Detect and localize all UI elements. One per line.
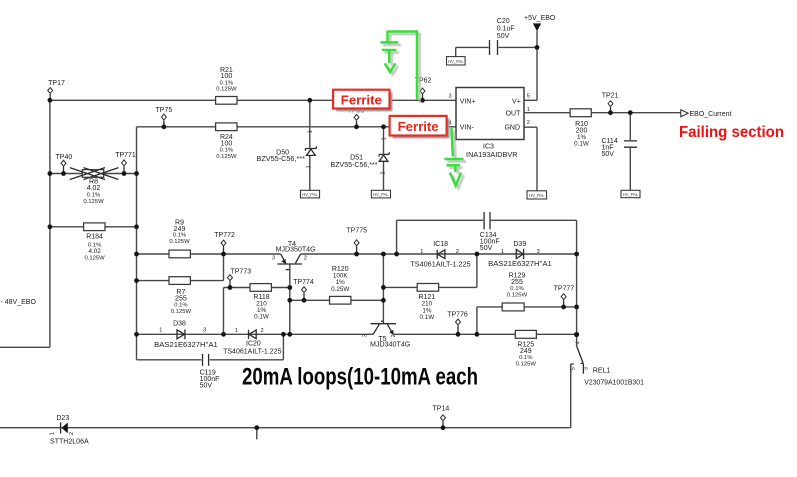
svg-text:0.1%: 0.1%	[174, 302, 188, 308]
svg-text:1: 1	[159, 328, 162, 334]
junction dots VIN- net	[162, 124, 386, 129]
svg-text:TP75: TP75	[156, 107, 173, 114]
wire: relay to bottom rail x=570.7	[570, 374, 572, 428]
net flag EBO_Current	[681, 110, 732, 118]
transistor T4 (PNP)	[272, 241, 316, 270]
testpoint TP772	[214, 232, 235, 254]
capacitor C134	[480, 212, 500, 252]
junction dots bottom rail	[254, 425, 445, 430]
svg-text:255: 255	[175, 295, 187, 302]
testpoint TP75	[156, 107, 173, 127]
svg-text:4.02: 4.02	[87, 185, 101, 192]
wire: bottom row y=334.3 left of T5	[137, 333, 374, 335]
svg-text:HV_PAL: HV_PAL	[623, 192, 639, 197]
svg-text:2: 2	[261, 328, 264, 334]
resistor R9	[169, 219, 190, 257]
wire: IC3 OUT net y=112.7	[524, 112, 681, 114]
wire: left vertical bus x=49.9	[49, 100, 51, 347]
svg-text:GND: GND	[504, 124, 520, 131]
svg-text:1: 1	[420, 249, 423, 255]
svg-text:TS4061AILT-1.225: TS4061AILT-1.225	[410, 261, 470, 268]
svg-text:4: 4	[576, 341, 582, 344]
svg-text:R184: R184	[86, 233, 103, 240]
wire: middle row y=254 right of T4	[301, 253, 577, 255]
svg-text:0.1%: 0.1%	[87, 192, 101, 198]
wire: R118 row y=287.5	[224, 287, 290, 289]
svg-text:TP17: TP17	[48, 80, 65, 87]
net label box C (D50)	[300, 190, 319, 198]
wire: exit left at y=347.3	[0, 346, 50, 348]
svg-text:100: 100	[221, 73, 233, 80]
wire: bottom row y=334.3 right of T5	[393, 333, 576, 335]
svg-text:3: 3	[203, 328, 206, 334]
svg-text:REL1: REL1	[593, 367, 611, 374]
wire: top net (-48V sense +) y=100.3	[50, 99, 456, 101]
zener D51	[331, 137, 390, 175]
svg-text:2: 2	[456, 249, 459, 255]
svg-text:EBO_Current: EBO_Current	[690, 111, 732, 118]
Ferrite label box 1	[333, 90, 392, 112]
svg-text:TP772: TP772	[214, 232, 235, 239]
svg-text:+5V_EBO: +5V_EBO	[524, 15, 556, 22]
wire: R129 drop to bottom row x=476.9	[476, 307, 478, 334]
power symbol +5V_EBO	[524, 15, 556, 31]
svg-text:50V: 50V	[200, 382, 213, 389]
net label box A (C20 left)	[447, 57, 466, 65]
svg-text:0.1uF: 0.1uF	[497, 26, 515, 33]
svg-text:MJD350T4G: MJD350T4G	[276, 247, 316, 254]
svg-text:HV_PAL: HV_PAL	[302, 192, 318, 197]
wire: +5V riser x=537	[536, 31, 538, 101]
svg-text:MJD340T4G: MJD340T4G	[370, 342, 410, 349]
svg-text:3: 3	[272, 256, 275, 262]
svg-text:BAS21E6327H''A1: BAS21E6327H''A1	[154, 342, 218, 349]
svg-text:2: 2	[391, 334, 397, 337]
green mark: hand-drawn battery/ground symbol top	[383, 34, 421, 103]
wire: R120 row y=300.3	[290, 299, 384, 301]
op-amp U1 / current sense IC3	[449, 88, 530, 159]
svg-text:D23: D23	[56, 415, 69, 422]
resistor R8 (crossed out)	[70, 168, 119, 205]
testpoint TP776	[447, 312, 468, 335]
svg-text:D38: D38	[173, 321, 186, 328]
svg-text:STTH2L06A: STTH2L06A	[50, 438, 89, 445]
testpoint TP40	[56, 154, 73, 174]
testpoint TP771	[115, 152, 136, 174]
svg-text:TP773: TP773	[230, 268, 251, 275]
net label box D (D51)	[371, 190, 390, 198]
resistor R21	[216, 67, 237, 104]
svg-text:Failing section: Failing section	[679, 124, 784, 141]
svg-text:1: 1	[501, 249, 504, 255]
wire: C114 hanger x=630.3	[629, 113, 631, 191]
svg-text:INA193AIDBVR: INA193AIDBVR	[466, 152, 518, 159]
svg-text:1: 1	[308, 130, 314, 133]
svg-text:0.125W: 0.125W	[216, 154, 237, 160]
svg-text:2: 2	[307, 165, 313, 168]
svg-text:2: 2	[69, 432, 75, 435]
wire: D50 hanger x=309.8	[309, 100, 311, 190]
wire: R129 row y=306.9	[477, 306, 577, 308]
net label box E (C114)	[621, 190, 640, 197]
svg-text:0.1%: 0.1%	[519, 355, 533, 361]
svg-text:2: 2	[381, 172, 387, 175]
resistor R10	[570, 109, 591, 148]
wire: vertical bus x=136.5	[136, 127, 138, 360]
svg-text:0.1%: 0.1%	[173, 233, 187, 239]
resistor R129	[502, 272, 527, 311]
svg-text:0.125W: 0.125W	[516, 361, 537, 367]
wire: middle row y=254 left of T4	[137, 253, 281, 255]
diode D23	[50, 415, 90, 445]
wire: VIN- net y=126.8	[137, 126, 457, 128]
junction dots OUT net	[608, 110, 633, 115]
wire: T4 base drop x=289.8	[289, 264, 291, 334]
svg-text:TP21: TP21	[602, 93, 619, 100]
svg-text:20mA loops(10-10mA each: 20mA loops(10-10mA each	[242, 364, 478, 391]
svg-text:255: 255	[511, 279, 523, 286]
testpoint TP17	[48, 80, 65, 100]
svg-text:D51: D51	[350, 154, 363, 161]
net label box B (IC3 GND)	[527, 191, 547, 199]
svg-text:HV_PAL: HV_PAL	[448, 59, 464, 64]
testpoint TP14	[433, 406, 450, 428]
junction dots top net	[48, 98, 425, 103]
junction dot +5V node	[535, 45, 540, 50]
diode D39	[488, 241, 552, 268]
svg-text:0.1W: 0.1W	[420, 314, 435, 321]
transistor T5 (NPN)	[362, 321, 410, 348]
svg-text:HV_PAL: HV_PAL	[529, 193, 545, 198]
wire: C20 row y=47.4	[456, 47, 537, 56]
svg-text:0.125W: 0.125W	[216, 87, 237, 93]
svg-text:BZV55-C56,***: BZV55-C56,***	[257, 156, 306, 163]
capacitor C119	[200, 354, 220, 389]
testpoint TP65 (hidden behind Ferrite label)	[348, 107, 365, 127]
wire: center vertical x=383.4 to T5	[382, 254, 384, 323]
svg-text:1: 1	[381, 137, 387, 140]
svg-text:0.125W: 0.125W	[84, 256, 105, 262]
svg-text:IC20: IC20	[246, 340, 261, 347]
wire: R184 row y=226.8	[50, 226, 137, 228]
shunt ref IC20	[223, 328, 281, 356]
svg-text:0.1%: 0.1%	[220, 148, 234, 154]
svg-text:BAS21E6327H''A1: BAS21E6327H''A1	[488, 261, 552, 268]
resistor R120	[330, 266, 351, 304]
resistor R24	[216, 123, 237, 160]
svg-text:TP775: TP775	[346, 228, 367, 235]
wire: IC3 V+ stub	[524, 99, 537, 101]
svg-text:50V: 50V	[480, 245, 493, 252]
svg-text:0.1W: 0.1W	[254, 314, 269, 321]
svg-text:2: 2	[527, 120, 530, 126]
capacitor C20	[490, 18, 515, 55]
wire: C119 branch bottom y=359.8	[137, 359, 284, 361]
svg-text:TP774: TP774	[293, 279, 314, 286]
wire: IC3 GND stub and drop	[524, 127, 537, 191]
wire: R7 row y=280.6	[137, 280, 224, 282]
diode D38	[154, 321, 218, 349]
svg-text:Ferrite: Ferrite	[398, 119, 439, 134]
svg-text:0.25W: 0.25W	[331, 286, 349, 293]
svg-text:3: 3	[449, 94, 452, 100]
svg-text:OUT: OUT	[506, 110, 522, 117]
testpoint TP21	[602, 93, 619, 113]
junction dots R184 row	[48, 224, 139, 229]
relay REL1	[570, 335, 644, 387]
svg-text:TP777: TP777	[554, 285, 575, 292]
junction dots middle row	[134, 252, 579, 257]
testpoint TP777	[554, 285, 575, 307]
svg-text:0.125W: 0.125W	[171, 309, 192, 315]
svg-text:249: 249	[520, 348, 532, 355]
wire: C119 right riser x=283.4	[282, 334, 284, 360]
svg-text:0.1%: 0.1%	[510, 286, 524, 292]
shunt ref IC18	[410, 241, 470, 268]
svg-text:5: 5	[527, 94, 530, 100]
svg-text:5: 5	[570, 367, 576, 370]
resistor R121	[417, 284, 438, 322]
junction dots R7/R118/R120/R121 rows	[134, 278, 386, 302]
testpoint TP774	[293, 279, 314, 300]
junction dots R129 row	[561, 305, 579, 310]
svg-text:V+: V+	[512, 98, 521, 105]
svg-text:VIN+: VIN+	[460, 98, 476, 105]
svg-text:0.125W: 0.125W	[169, 239, 190, 245]
testpoint TP62	[415, 77, 432, 100]
svg-text:V23079A1001B301: V23079A1001B301	[584, 379, 644, 386]
wire: R118 drop to bottom row x=223.5	[223, 288, 225, 335]
wire: R8 row y=173.5	[50, 173, 137, 175]
resistor R125	[515, 330, 536, 367]
testpoint TP775	[346, 228, 367, 255]
wire: D51 hanger x=383.5	[383, 127, 385, 191]
wire: R121 row y=287.4	[383, 286, 477, 288]
svg-text:HV_PAL: HV_PAL	[373, 192, 389, 197]
wire: C134 left riser x=396.6	[396, 220, 398, 254]
svg-text:0.125W: 0.125W	[83, 199, 104, 205]
svg-text:50V: 50V	[497, 33, 510, 40]
green mark: hand-drawn battery/ground symbol at VIN-	[447, 131, 466, 189]
svg-text:TS4061AILT-1.225: TS4061AILT-1.225	[223, 349, 281, 356]
svg-text:Ferrite: Ferrite	[341, 93, 382, 108]
svg-text:TP771: TP771	[115, 152, 136, 159]
svg-text:100: 100	[221, 140, 233, 147]
zener D50	[257, 130, 317, 168]
svg-text:- 48V_EBO: - 48V_EBO	[1, 299, 37, 306]
junction dots bottom row	[134, 332, 579, 337]
resistor R184	[84, 223, 106, 262]
svg-text:IC3: IC3	[483, 144, 494, 151]
svg-text:3: 3	[537, 249, 540, 255]
svg-text:50V: 50V	[602, 151, 615, 158]
capacitor C114	[602, 138, 638, 158]
svg-text:1: 1	[50, 432, 56, 435]
resistor R118	[250, 284, 271, 321]
svg-text:TP776: TP776	[447, 312, 468, 319]
svg-text:TP40: TP40	[56, 154, 73, 161]
svg-text:TP14: TP14	[433, 406, 450, 413]
svg-text:IC18: IC18	[433, 241, 448, 248]
testpoint TP773	[228, 268, 252, 287]
wire: C134 top branch y=220.3	[397, 219, 577, 221]
wire: bottom rail y=427.7	[0, 427, 571, 429]
svg-text:C20: C20	[497, 18, 510, 25]
svg-text:1: 1	[235, 328, 238, 334]
svg-text:VIN-: VIN-	[460, 124, 475, 131]
svg-text:4.02: 4.02	[88, 248, 101, 255]
svg-text:BZV55-C56,***: BZV55-C56,***	[331, 162, 378, 169]
svg-text:0.1%: 0.1%	[220, 80, 234, 86]
svg-text:D39: D39	[513, 241, 526, 248]
resistor R7	[169, 277, 191, 315]
svg-text:3: 3	[362, 334, 368, 337]
svg-text:3: 3	[583, 367, 589, 370]
wire: stub below bottom rail x=256.8	[256, 428, 258, 440]
svg-text:2: 2	[304, 256, 307, 262]
svg-text:0.125W: 0.125W	[507, 292, 528, 298]
wire: R7 row riser to middle row x=223.5	[223, 254, 225, 281]
svg-text:1: 1	[527, 107, 530, 113]
junction dots R8 row	[48, 171, 139, 176]
Ferrite label box 2	[390, 116, 450, 138]
wire: right vertical x=576.6	[576, 220, 578, 334]
wire: R121 riser x=476.9	[476, 254, 478, 287]
svg-text:0.1W: 0.1W	[574, 141, 589, 148]
